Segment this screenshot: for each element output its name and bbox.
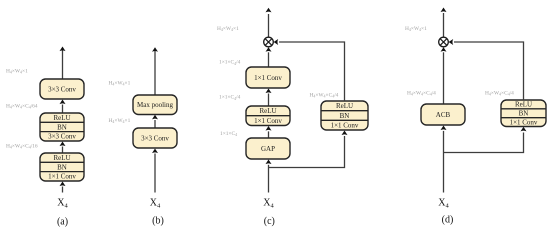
svg-text:1×1 Conv: 1×1 Conv [254, 117, 282, 125]
svg-text:(b): (b) [152, 216, 164, 227]
svg-text:GAP: GAP [261, 145, 275, 153]
svg-text:1×1 Conv: 1×1 Conv [331, 121, 359, 129]
svg-text:(a): (a) [57, 217, 68, 228]
svg-text:3×3 Conv: 3×3 Conv [141, 134, 169, 142]
svg-text:BN: BN [340, 112, 350, 120]
svg-text:H4×W4×C4/4: H4×W4×C4/4 [485, 90, 514, 96]
svg-text:3×3 Conv: 3×3 Conv [48, 85, 76, 93]
svg-text:1×1 Conv: 1×1 Conv [510, 118, 538, 126]
svg-text:1×1 Conv: 1×1 Conv [254, 74, 282, 82]
svg-text:3×3 Conv: 3×3 Conv [48, 133, 76, 141]
svg-text:H4×W4×1: H4×W4×1 [109, 118, 131, 124]
svg-text:1×1×C4/4: 1×1×C4/4 [219, 60, 241, 66]
svg-text:Max pooling: Max pooling [137, 101, 173, 109]
svg-text:1×1×C4: 1×1×C4 [220, 131, 237, 137]
svg-text:BN: BN [57, 123, 67, 131]
svg-text:1×1×C4/4: 1×1×C4/4 [219, 95, 241, 101]
svg-text:H4×W4×1: H4×W4×1 [109, 81, 131, 87]
svg-text:(c): (c) [264, 216, 275, 227]
svg-text:ReLU: ReLU [259, 107, 276, 115]
svg-text:ReLU: ReLU [53, 114, 70, 122]
svg-text:ReLU: ReLU [515, 101, 532, 109]
svg-text:ACB: ACB [436, 111, 451, 119]
svg-text:ReLU: ReLU [53, 154, 70, 162]
svg-text:(d): (d) [442, 214, 454, 225]
svg-text:H4×W4×C4/4: H4×W4×C4/4 [310, 93, 339, 99]
svg-text:H4×W4×1: H4×W4×1 [6, 69, 28, 75]
svg-text:ReLU: ReLU [336, 102, 353, 110]
svg-text:BN: BN [519, 110, 529, 118]
svg-text:H4×W4×C4/4: H4×W4×C4/4 [407, 90, 436, 96]
svg-text:H4×W4×1: H4×W4×1 [405, 26, 427, 32]
svg-text:BN: BN [57, 163, 67, 171]
svg-text:1×1 Conv: 1×1 Conv [48, 173, 76, 181]
svg-text:H4×W4×C4/64: H4×W4×C4/64 [6, 104, 38, 110]
svg-text:H4×W4×1: H4×W4×1 [217, 26, 239, 32]
svg-text:H4×W4×C4/16: H4×W4×C4/16 [6, 144, 38, 150]
